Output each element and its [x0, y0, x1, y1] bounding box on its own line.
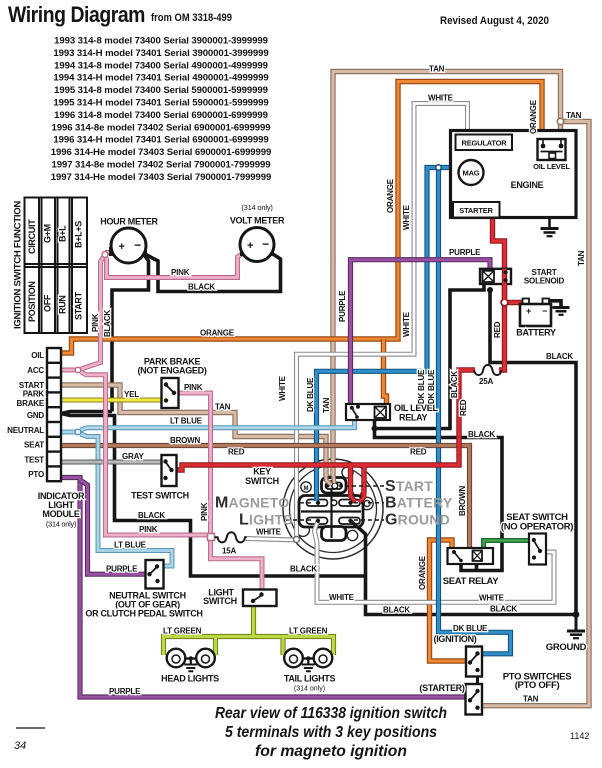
svg-text:SEAT RELAY: SEAT RELAY — [443, 576, 500, 587]
svg-text:PURPLE: PURPLE — [338, 290, 347, 322]
svg-text:TEST: TEST — [24, 456, 44, 465]
tail lights — [284, 649, 332, 672]
wire pink ACC indicator to fuse — [61, 370, 208, 535]
svg-text:MAG: MAG — [463, 169, 480, 178]
ground symbol battery — [553, 308, 570, 315]
svg-text:ACC: ACC — [27, 366, 44, 375]
wire purple branch to neutral switch — [80, 480, 147, 574]
svg-text:for magneto ignition: for magneto ignition — [255, 743, 407, 760]
svg-text:START: START — [74, 291, 84, 320]
test switch — [162, 455, 177, 486]
svg-text:MODULE: MODULE — [42, 509, 79, 519]
svg-text:15A: 15A — [222, 547, 236, 556]
svg-text:BLACK: BLACK — [188, 283, 215, 292]
pto switch ignition — [466, 647, 482, 677]
svg-text:B+L+S: B+L+S — [74, 221, 84, 248]
svg-text:1996 314-8 model 73400 Serial: 1996 314-8 model 73400 Serial 6900001-69… — [54, 110, 268, 121]
svg-text:34: 34 — [14, 740, 26, 752]
indicator light module boxes — [47, 348, 61, 481]
wire labels left area — [91, 268, 282, 574]
wire brown seat indicator to seat relay — [61, 446, 470, 550]
svg-text:PINK: PINK — [91, 313, 100, 332]
svg-text:1993 314-8 model 73400 Serial: 1993 314-8 model 73400 Serial 3900001-39… — [54, 36, 268, 47]
svg-text:DK BLUE: DK BLUE — [306, 377, 315, 412]
wire black PTO switch link — [476, 668, 479, 692]
svg-text:(NO OPERATOR): (NO OPERATOR) — [501, 522, 573, 533]
volt meter — [240, 228, 274, 262]
svg-text:+: + — [247, 240, 253, 252]
svg-text:from OM 3318-499: from OM 3318-499 — [151, 12, 232, 24]
svg-text:1997 314-He model 73403 Serial: 1997 314-He model 73403 Serial 7900001-7… — [51, 172, 272, 183]
svg-text:GROUND: GROUND — [546, 642, 587, 653]
svg-text:BLACK: BLACK — [103, 310, 112, 337]
svg-text:ENGINE: ENGINE — [511, 180, 544, 190]
wire pink hour meter to volt meter and ACC — [81, 253, 244, 370]
connector node tan oil level — [557, 118, 563, 124]
svg-text:1994 314-8 model 73400 Serial: 1994 314-8 model 73400 Serial 4900001-49… — [54, 60, 268, 71]
svg-text:WHITE: WHITE — [428, 94, 454, 103]
svg-text:(314 only): (314 only) — [241, 203, 273, 212]
oil level sensor — [538, 139, 566, 160]
svg-text:−: − — [542, 306, 547, 316]
junction dot solenoid black — [487, 287, 493, 293]
fuse 15A symbol — [208, 532, 247, 542]
svg-text:PINK: PINK — [184, 383, 203, 392]
battery — [520, 299, 551, 327]
key switch terminal pads — [307, 483, 361, 525]
model list — [51, 36, 272, 183]
label PARK BRAKE (NOT ENGAGED) — [137, 357, 206, 376]
svg-text:1996 314-He model 73403 Serial: 1996 314-He model 73403 Serial 6900001-6… — [51, 147, 272, 158]
oil level relay — [346, 404, 390, 420]
label START SOLENOID — [524, 268, 565, 286]
wire tan START indicator to key switch — [61, 385, 334, 484]
pto switch starter — [466, 684, 483, 715]
svg-text:PTO: PTO — [28, 470, 44, 479]
svg-text:1995 314-H model 73401 Serial: 1995 314-H model 73401 Serial 5900001-59… — [53, 98, 268, 109]
svg-text:LIGHTS: LIGHTS — [239, 512, 293, 529]
svg-text:YEL: YEL — [124, 390, 139, 399]
svg-text:TAN: TAN — [523, 695, 539, 704]
svg-text:(314 only): (314 only) — [294, 686, 325, 693]
svg-text:ORANGE: ORANGE — [418, 555, 427, 590]
wire black battery minus to ground — [549, 301, 561, 307]
wire orange to oil level relay — [384, 339, 387, 405]
junction node pink ACC — [75, 367, 81, 373]
svg-text:IGNITION SWITCH FUNCTION: IGNITION SWITCH FUNCTION — [13, 201, 24, 329]
junction node light blue — [75, 429, 81, 435]
wire gray test switch — [61, 460, 162, 465]
svg-text:ORANGE: ORANGE — [386, 178, 395, 213]
svg-text:PINK: PINK — [139, 525, 158, 534]
svg-text:WHITE: WHITE — [402, 204, 411, 230]
svg-text:SOLENOID: SOLENOID — [524, 277, 565, 286]
svg-text:OIL LEVEL: OIL LEVEL — [533, 162, 570, 171]
wire green seat relay to seat switch — [484, 541, 533, 550]
svg-text:RED: RED — [493, 321, 502, 338]
svg-text:1993 314-H model 73401 Serial: 1993 314-H model 73401 Serial 3900001-39… — [53, 48, 268, 59]
svg-text:−: − — [262, 237, 269, 251]
svg-text:KEY: KEY — [253, 467, 271, 477]
label LIGHT SWITCH — [203, 588, 237, 607]
svg-text:HOUR METER: HOUR METER — [100, 217, 158, 227]
lt green labels — [163, 627, 328, 636]
page number 34 — [16, 727, 45, 729]
bottom italic caption — [215, 705, 447, 760]
ignition switch function table — [25, 198, 88, 334]
start solenoid — [480, 269, 511, 284]
svg-text:PARK: PARK — [23, 390, 45, 399]
svg-text:RED: RED — [410, 448, 427, 457]
wire light green light switch to lamps — [164, 605, 334, 655]
svg-text:LT BLUE: LT BLUE — [114, 541, 147, 550]
wire red starter to battery to fuse — [493, 213, 525, 370]
junction dot ground bus — [573, 611, 580, 618]
svg-text:BROWN: BROWN — [458, 485, 467, 516]
svg-text:BLACK: BLACK — [138, 511, 165, 520]
engine box — [451, 131, 577, 218]
svg-text:OFF: OFF — [43, 294, 53, 312]
svg-text:TAN: TAN — [322, 397, 331, 413]
svg-text:RUN: RUN — [58, 295, 68, 314]
svg-text:WHITE: WHITE — [256, 528, 282, 537]
light switch — [243, 590, 277, 607]
svg-text:LT GREEN: LT GREEN — [289, 627, 328, 636]
wire black hour meter to volt meter — [112, 253, 281, 412]
svg-text:Revised August 4, 2020: Revised August 4, 2020 — [440, 15, 549, 27]
svg-text:RELAY: RELAY — [399, 413, 427, 423]
svg-text:TAN: TAN — [215, 403, 231, 412]
svg-text:ORANGE: ORANGE — [529, 99, 538, 134]
svg-text:5 terminals with 3 key positio: 5 terminals with 3 key positions — [225, 724, 437, 741]
head lights — [167, 649, 215, 672]
connector node white — [294, 537, 300, 543]
hour meter — [109, 228, 147, 263]
svg-text:(PTO OFF): (PTO OFF) — [515, 680, 560, 691]
WIRES-LAYER — [61, 72, 589, 706]
junction node pink hour meter — [102, 252, 108, 258]
svg-text:PURPLE: PURPLE — [109, 687, 141, 696]
right side wire labels — [228, 65, 586, 704]
wire orange charging circuit — [61, 82, 542, 354]
wire red fuse to key switch and test switch — [177, 370, 475, 502]
svg-text:VOLT METER: VOLT METER — [230, 216, 285, 226]
svg-text:BLACK: BLACK — [383, 606, 410, 615]
svg-text:NEUTRAL: NEUTRAL — [7, 426, 44, 435]
svg-text:G+M: G+M — [43, 224, 53, 243]
svg-text:TAN: TAN — [577, 250, 586, 266]
svg-text:1996 314-H model 73401 Serial: 1996 314-H model 73401 Serial 6900001-69… — [53, 135, 268, 146]
svg-text:BATTERY: BATTERY — [516, 328, 556, 338]
svg-text:+: + — [526, 306, 531, 316]
svg-text:GRAY: GRAY — [122, 452, 144, 461]
svg-text:HEAD LIGHTS: HEAD LIGHTS — [161, 674, 219, 684]
svg-text:BLACK: BLACK — [468, 430, 495, 439]
svg-text:LT GREEN: LT GREEN — [163, 627, 202, 636]
svg-text:LT BLUE: LT BLUE — [170, 417, 203, 426]
svg-text:(NOT ENGAGED): (NOT ENGAGED) — [137, 366, 206, 376]
ground symbol right — [567, 615, 585, 639]
svg-text:1994 314-H model 73401 Serial: 1994 314-H model 73401 Serial 4900001-49… — [53, 73, 268, 84]
wire stubs into key switch pads — [315, 476, 364, 529]
wire dark blue magneto to key switch — [317, 168, 461, 502]
svg-text:1995 314-8 model 73400 Serial: 1995 314-8 model 73400 Serial 5900001-59… — [54, 85, 268, 96]
svg-text:B+L: B+L — [58, 225, 68, 242]
svg-text:SWITCH: SWITCH — [203, 596, 237, 606]
label OIL LEVEL RELAY — [394, 403, 438, 423]
svg-text:SEAT: SEAT — [24, 441, 44, 450]
wire purple PTO indicator to starter pto switch — [61, 478, 467, 698]
svg-text:PURPLE: PURPLE — [106, 565, 138, 574]
key switch dashed leads — [286, 486, 384, 520]
svg-text:BATTERY: BATTERY — [385, 495, 453, 512]
svg-text:DK BLUE: DK BLUE — [427, 369, 436, 404]
svg-text:WHITE: WHITE — [329, 593, 355, 602]
seat relay — [448, 548, 494, 564]
svg-text:WHITE: WHITE — [479, 594, 505, 603]
svg-text:MAGNETO: MAGNETO — [215, 495, 289, 512]
svg-text:WHITE: WHITE — [402, 311, 411, 337]
wire pink park brake to light switch — [175, 393, 262, 590]
svg-text:PINK: PINK — [200, 502, 209, 521]
key switch terminal block — [299, 478, 363, 541]
svg-text:−: − — [134, 238, 141, 252]
junction dot oil level relay black — [372, 426, 378, 432]
svg-text:GROUND: GROUND — [385, 512, 450, 529]
junction node red battery — [501, 299, 508, 306]
svg-text:PINK: PINK — [171, 268, 190, 277]
label INDICATOR LIGHT MODULE — [38, 491, 85, 529]
svg-text:(STARTER): (STARTER) — [419, 683, 464, 693]
wire black GND indicator fork — [61, 412, 366, 577]
svg-text:BRAKE: BRAKE — [17, 399, 45, 408]
magneto MAG — [459, 160, 484, 185]
svg-text:PURPLE: PURPLE — [449, 248, 481, 257]
wire tan engine loop and right side run — [333, 72, 589, 706]
wire light blue neutral indicator to oil level relay — [61, 419, 355, 432]
wire black key switch ground to frame ground — [351, 521, 576, 615]
module labels — [7, 351, 45, 479]
wire yellow park brake — [61, 398, 162, 403]
svg-text:1996 314-8e model 73402 Serial: 1996 314-8e model 73402 Serial 6900001-6… — [52, 122, 271, 133]
wire purple solenoid to oil level relay — [351, 260, 491, 405]
wire white key switch lights to seat switch — [315, 521, 555, 602]
svg-text:TAN: TAN — [566, 111, 582, 120]
key switch body circles — [283, 459, 383, 559]
starter box — [453, 202, 500, 218]
svg-text:Wiring Diagram: Wiring Diagram — [8, 2, 145, 27]
svg-text:TAN: TAN — [429, 65, 445, 74]
svg-text:OR CLUTCH PEDAL SWITCH: OR CLUTCH PEDAL SWITCH — [85, 609, 202, 619]
wire red through solenoid overlay — [502, 269, 507, 300]
svg-text:BLACK: BLACK — [450, 371, 459, 398]
svg-text:(IGNITION): (IGNITION) — [434, 634, 477, 644]
svg-text:Rear view of 116338 ignition s: Rear view of 116338 ignition switch — [215, 705, 447, 722]
label PTO SWITCHES (PTO OFF) — [503, 672, 572, 692]
seat switch — [529, 534, 546, 565]
label KEY SWITCH — [245, 467, 279, 487]
regulator box — [456, 135, 513, 151]
wire light blue branch to neutral switch — [81, 434, 173, 566]
fuse 25A symbol — [474, 365, 502, 375]
svg-text:DK BLUE: DK BLUE — [417, 369, 426, 404]
wire white engine to fuse — [245, 104, 468, 541]
svg-text:RED: RED — [459, 399, 468, 416]
svg-text:START: START — [385, 478, 433, 495]
svg-text:ORANGE: ORANGE — [200, 329, 235, 338]
svg-text:WHITE: WHITE — [278, 375, 287, 401]
svg-text:BROWN: BROWN — [170, 436, 201, 445]
svg-text:OIL: OIL — [31, 351, 44, 360]
svg-text:GND: GND — [27, 411, 45, 420]
svg-text:+: + — [118, 241, 124, 253]
wire black solenoid to oil level relay — [375, 283, 577, 615]
label SEAT SWITCH (NO OPERATOR) — [501, 512, 573, 533]
svg-text:RED: RED — [228, 448, 245, 457]
svg-text:TEST SWITCH: TEST SWITCH — [131, 491, 189, 501]
junction node dark blue — [436, 165, 441, 170]
svg-text:REGULATOR: REGULATOR — [461, 139, 507, 148]
svg-text:BLACK: BLACK — [290, 565, 317, 574]
svg-text:25A: 25A — [479, 377, 493, 386]
key switch screws — [297, 467, 374, 541]
wire orange seat relay to pto ignition switch — [430, 540, 467, 661]
neutral switch — [146, 560, 164, 589]
svg-text:1142: 1142 — [570, 731, 589, 741]
svg-text:CIRCUIT: CIRCUIT — [27, 219, 37, 254]
svg-text:BLACK: BLACK — [490, 605, 517, 614]
svg-text:TAIL LIGHTS: TAIL LIGHTS — [284, 674, 336, 684]
park brake switch — [162, 378, 179, 408]
svg-text:(314 only): (314 only) — [46, 520, 77, 529]
svg-text:1997 314-8e model 73402 Serial: 1997 314-8e model 73402 Serial 7900001-7… — [52, 160, 271, 171]
ground symbol engine — [541, 218, 559, 237]
wire dark blue magneto to pto ignition switch — [439, 168, 511, 654]
svg-text:SWITCH: SWITCH — [245, 476, 279, 486]
svg-text:STARTER: STARTER — [459, 206, 493, 215]
svg-text:BLACK: BLACK — [546, 352, 573, 361]
label NEUTRAL SWITCH — [85, 591, 202, 619]
svg-text:M: M — [304, 486, 309, 492]
svg-text:POSITION: POSITION — [27, 281, 37, 322]
svg-text:DK BLUE: DK BLUE — [453, 624, 488, 633]
